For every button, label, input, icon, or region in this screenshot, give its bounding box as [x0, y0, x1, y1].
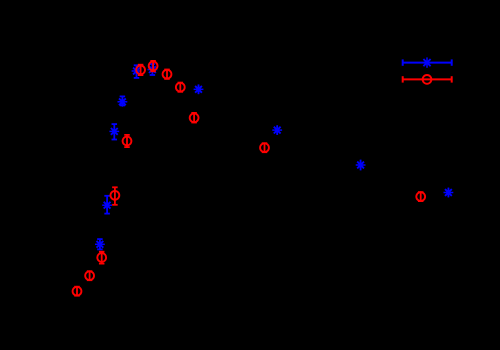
data point B9 (blue asterisk with error bar) [356, 160, 366, 171]
data point R1 (red circle with error bar) [136, 65, 145, 75]
data point B10 (blue asterisk with error bar) [444, 188, 454, 198]
data point B5 (blue asterisk with error bar) [109, 124, 119, 139]
legend sample series 1 (blue errorbar line with asterisk) [403, 57, 452, 67]
data point R12 (red circle with error bar) [416, 192, 425, 201]
data point R10 (red circle with error bar) [73, 287, 82, 296]
data point R9 (red circle with error bar) [85, 271, 94, 280]
data point R6 (red circle with error bar) [123, 135, 132, 147]
data point R7 (red circle with error bar) [111, 187, 120, 205]
data point R8 (red circle with error bar) [97, 252, 106, 264]
data point R3 (red circle with error bar) [163, 70, 172, 79]
data point B1 (blue asterisk with error bar) [132, 65, 142, 78]
data point B4 (blue asterisk with error bar) [118, 96, 128, 106]
data point R5 (red circle with error bar) [190, 113, 199, 123]
data point R11 (red circle with error bar) [260, 143, 269, 152]
data point B6 (blue asterisk with error bar) [102, 196, 112, 214]
legend sample series 2 (red errorbar line with circle) [403, 75, 452, 84]
data point B8 (blue asterisk with error bar) [272, 125, 282, 135]
data point R4 (red circle with error bar) [176, 83, 185, 92]
data point B2 (blue asterisk with error bar) [148, 64, 158, 75]
data point B3 (blue asterisk with error bar) [194, 84, 204, 94]
data point B7 (blue asterisk with error bar) [95, 239, 105, 249]
data point R2 (red circle with error bar) [149, 61, 158, 71]
